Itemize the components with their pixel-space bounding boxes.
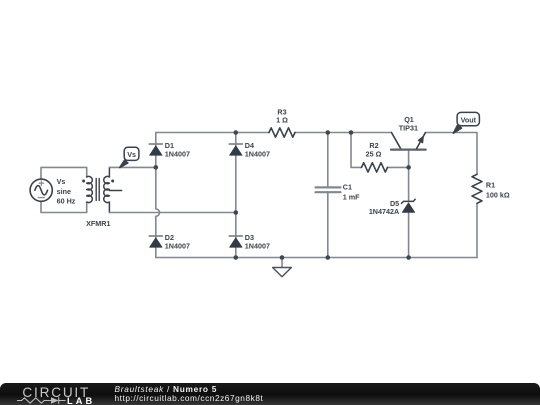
footer url text	[115, 393, 264, 403]
svg-text:Q1: Q1	[404, 115, 414, 124]
junction: top rail / C1	[326, 130, 331, 135]
wire: Q1 base lead down to node	[408, 150, 410, 168]
label D2	[165, 233, 190, 251]
transformer XFMR1 primary coil	[87, 176, 93, 202]
wire: base node down to D5	[408, 167, 410, 257]
wire: bridge right branch	[235, 133, 237, 258]
svg-text:TIP31: TIP31	[399, 124, 418, 133]
svg-text:60 Hz: 60 Hz	[57, 197, 76, 206]
junction: bottom rail / ground	[280, 255, 285, 260]
resistor R1	[472, 174, 482, 203]
svg-text:Vs: Vs	[127, 150, 136, 159]
junction: top rail / R2 drop	[349, 130, 354, 135]
svg-text:1N4742A: 1N4742A	[369, 207, 399, 216]
label C1	[343, 183, 360, 202]
junction: secondary top / left branch	[154, 165, 159, 170]
label D3	[245, 233, 270, 251]
resistor R2	[362, 163, 388, 172]
capacitor C1	[316, 187, 341, 192]
junction: bottom rail / D3	[234, 255, 239, 260]
label R3	[276, 107, 288, 124]
zener diode D5	[402, 199, 416, 212]
wire: top rail middle (R3 to Q1 collector)	[295, 132, 392, 134]
logo squiggle resistor+diode	[15, 396, 67, 405]
svg-text:D1: D1	[165, 141, 174, 150]
transistor Q1 base bar	[391, 149, 426, 151]
label R1	[486, 181, 510, 200]
transformer XFMR1 secondary coil	[104, 176, 110, 202]
wire: top rail right (Q1 emitter to R1 branch)	[425, 133, 477, 175]
wire: top rail left (bridge to R3)	[156, 132, 269, 134]
svg-text:R1: R1	[486, 181, 495, 190]
footer title text	[115, 384, 218, 394]
svg-text:1N4007: 1N4007	[245, 242, 270, 251]
diode D3	[229, 236, 242, 247]
wire: secondary top to bridge (node Vs)	[109, 166, 155, 168]
svg-text:Vout: Vout	[461, 115, 477, 124]
polarity dot primary	[82, 180, 85, 183]
wire: C1 branch leads	[327, 133, 329, 258]
label Q1	[399, 115, 418, 133]
transformer XFMR1 secondary leads	[108, 167, 110, 212]
svg-text:25 Ω: 25 Ω	[366, 150, 382, 159]
transistor Q1 collector lead	[392, 133, 401, 149]
diode D1	[149, 144, 162, 155]
polarity - mark of Vs	[38, 197, 44, 199]
label D4	[245, 141, 270, 159]
logo LAB	[67, 396, 95, 405]
transistor Q1 emitter arrow	[418, 136, 424, 143]
wire: source loop top (Vs+ to primary)	[41, 167, 87, 179]
node label Vs box	[124, 147, 139, 160]
node label Vs flag pointer	[120, 160, 128, 167]
junction: R2 / Q1 base / D5	[406, 165, 411, 170]
wire: bottom rail	[156, 257, 477, 259]
wire: R2 to base node	[388, 166, 409, 168]
svg-text:1N4007: 1N4007	[245, 150, 270, 159]
label D1	[165, 141, 190, 159]
svg-text:1 mF: 1 mF	[343, 193, 360, 202]
node label Vout flag pointer	[453, 125, 461, 133]
wire: R1 bottom to bottom rail	[476, 203, 478, 257]
transformer XFMR1 core	[96, 179, 99, 201]
value label of Vs	[57, 177, 76, 206]
svg-text:Vs: Vs	[57, 177, 66, 186]
transformer XFMR1 secondary center tap stub	[109, 190, 121, 192]
voltage source Vs	[30, 179, 52, 201]
wire: source loop bottom (Vs- to primary)	[41, 201, 87, 212]
junction: secondary bottom / right branch	[234, 210, 239, 215]
ground symbol	[273, 258, 292, 277]
svg-text:1N4007: 1N4007	[165, 242, 190, 251]
svg-text:C1: C1	[343, 183, 352, 192]
junction: bottom rail / C1	[326, 255, 331, 260]
node label Vout box	[457, 112, 479, 125]
svg-text:XFMR1: XFMR1	[86, 219, 110, 228]
svg-text:R2: R2	[369, 141, 378, 150]
svg-text:D3: D3	[245, 233, 254, 242]
polarity dot secondary	[111, 180, 114, 183]
diode D2	[149, 236, 162, 247]
wire: bridge left branch with hop over secondary bottom wire	[156, 133, 160, 258]
transistor Q1 emitter lead	[417, 133, 426, 149]
label R2	[366, 141, 382, 159]
label D5	[369, 199, 399, 216]
svg-text:sine: sine	[57, 187, 71, 196]
svg-text:D2: D2	[165, 233, 174, 242]
wire: R2 branch from top rail	[351, 133, 362, 168]
diode D4	[229, 144, 242, 155]
resistor R3	[269, 128, 295, 137]
polarity + mark of Vs	[39, 181, 43, 185]
svg-text:1N4007: 1N4007	[165, 150, 190, 159]
svg-text:100 kΩ: 100 kΩ	[486, 191, 510, 200]
CircuitLab footer bar	[0, 383, 540, 405]
junction: top rail / D4	[234, 130, 239, 135]
junction: bottom rail / D5	[406, 255, 411, 260]
svg-text:D4: D4	[245, 141, 254, 150]
svg-text:1 Ω: 1 Ω	[276, 116, 288, 125]
wire: secondary bottom to bridge right branch	[109, 212, 235, 214]
logo CIRCUIT	[22, 385, 90, 400]
